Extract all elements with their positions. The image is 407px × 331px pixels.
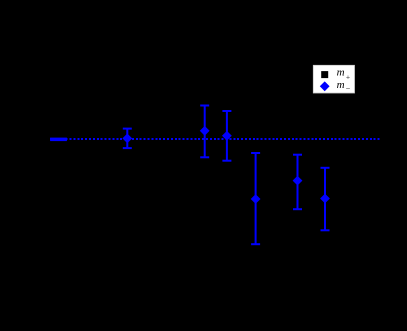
svg-text:m: m xyxy=(337,66,345,78)
svg-text:m: m xyxy=(337,79,345,91)
svg-text:−: − xyxy=(346,84,351,93)
svg-text:+: + xyxy=(346,72,350,81)
